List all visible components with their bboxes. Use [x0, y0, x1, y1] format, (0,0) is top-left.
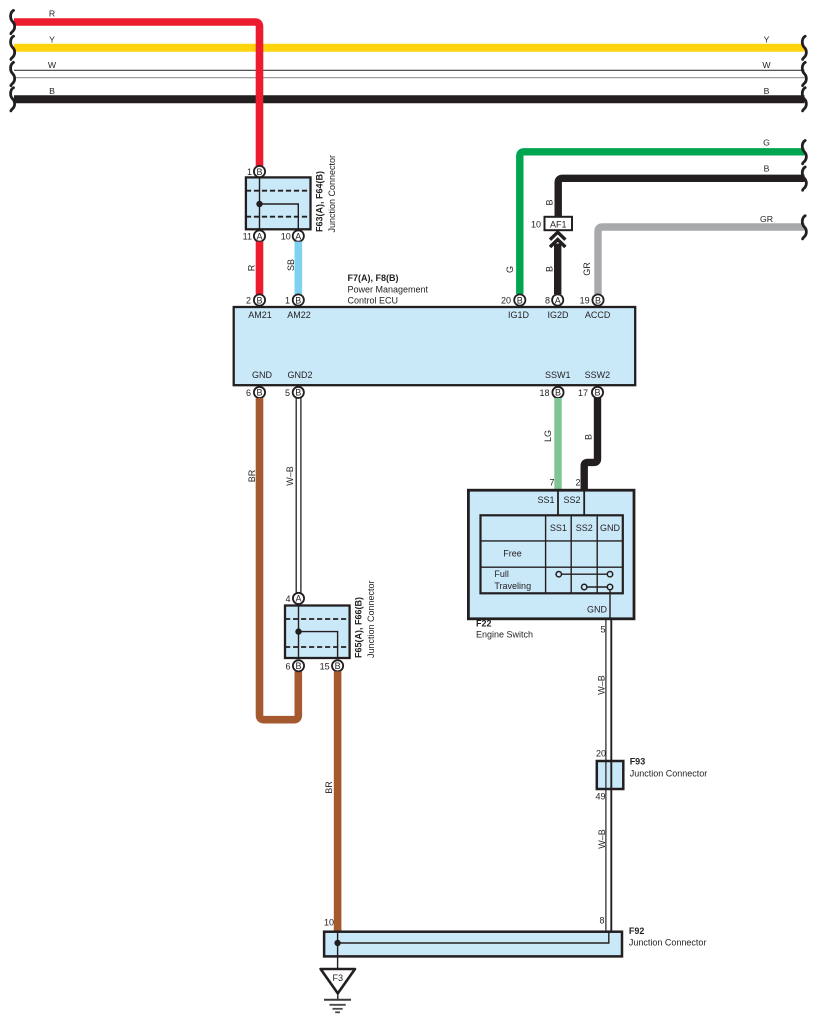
pin 18 B (SSW1)	[552, 387, 563, 398]
svg-text:20: 20	[596, 749, 606, 759]
svg-text:F65(A), F66(B): F65(A), F66(B)	[354, 597, 364, 658]
svg-text:W: W	[48, 60, 57, 70]
svg-text:W–B: W–B	[285, 466, 295, 486]
break symbol GR	[802, 216, 806, 239]
svg-text:AF1: AF1	[550, 219, 567, 229]
pin 4 A	[293, 593, 304, 604]
junction connector F93 box	[597, 761, 624, 789]
wire SB F63 to ECU AM22	[294, 242, 302, 295]
pin 17 B (SSW2)	[592, 387, 603, 398]
break symbol B	[802, 167, 806, 190]
svg-text:Control ECU: Control ECU	[348, 295, 399, 305]
break symbol right edge (buses)	[802, 36, 806, 59]
svg-text:W–B: W–B	[597, 829, 607, 849]
internal wire vertical pin1-pin11	[259, 177, 261, 229]
wire BR F65 pin 15 to F92	[334, 671, 342, 931]
break symbol left edge	[11, 10, 15, 33]
earth hatch lines	[324, 999, 351, 1001]
pin 20 B (IG1D)	[514, 294, 525, 305]
svg-text:IG2D: IG2D	[547, 310, 569, 320]
switch table frame	[481, 515, 623, 593]
svg-text:B: B	[256, 167, 262, 177]
dashed line upper	[285, 618, 350, 620]
svg-text:Power Management: Power Management	[348, 284, 429, 294]
svg-text:B: B	[49, 86, 55, 96]
svg-text:Traveling: Traveling	[494, 581, 531, 591]
svg-text:B: B	[764, 86, 770, 96]
junction dot	[334, 940, 340, 946]
bus wire B	[14, 95, 805, 103]
svg-text:B: B	[594, 388, 600, 398]
svg-text:GND: GND	[252, 370, 273, 380]
svg-text:A: A	[555, 295, 561, 305]
pin 10 A	[293, 230, 304, 241]
svg-text:10: 10	[324, 918, 334, 928]
svg-text:8: 8	[599, 916, 604, 926]
wire B from AF1 to ECU pin 8	[554, 244, 561, 295]
svg-text:B: B	[256, 295, 262, 305]
svg-text:B: B	[584, 434, 594, 440]
pin 6 B (GND)	[254, 387, 265, 398]
internal wire vertical pin4-pin6	[298, 606, 300, 659]
svg-text:GR: GR	[760, 214, 773, 224]
ground lead from F92	[337, 943, 339, 969]
svg-text:20: 20	[501, 296, 511, 306]
svg-text:Engine Switch: Engine Switch	[476, 630, 533, 640]
svg-text:B: B	[295, 661, 301, 671]
svg-text:49: 49	[595, 792, 605, 802]
svg-text:Junction Connector: Junction Connector	[366, 580, 376, 658]
pin 2 B (AM21)	[254, 294, 265, 305]
svg-text:AM22: AM22	[287, 310, 311, 320]
svg-text:17: 17	[578, 388, 588, 398]
svg-text:SS2: SS2	[576, 523, 593, 533]
svg-text:B: B	[256, 388, 262, 398]
svg-text:GR: GR	[582, 262, 592, 276]
internal lead SS1	[557, 490, 559, 515]
pin 19 B (ACCD)	[592, 294, 603, 305]
contact SS1-GND	[559, 573, 610, 575]
bus wire W (outlined white wire)	[14, 69, 805, 71]
svg-text:F92: F92	[629, 926, 645, 936]
svg-text:18: 18	[539, 388, 549, 398]
engine switch F22 box	[468, 490, 634, 619]
junction connector F92 box	[324, 932, 622, 957]
bus wire Y	[14, 44, 805, 52]
svg-text:Junction Connector: Junction Connector	[629, 938, 707, 948]
table row lines	[481, 541, 623, 567]
pin 6 B	[293, 660, 304, 671]
svg-text:ACCD: ACCD	[585, 310, 611, 320]
contact SS2-GND	[584, 586, 610, 588]
svg-text:SS2: SS2	[563, 495, 580, 505]
svg-text:SSW2: SSW2	[585, 370, 611, 380]
svg-text:GND: GND	[587, 605, 608, 615]
svg-text:4: 4	[285, 594, 290, 604]
svg-text:LG: LG	[543, 430, 553, 442]
svg-text:Free: Free	[503, 549, 522, 559]
dashed line lower	[285, 646, 350, 648]
svg-text:1: 1	[247, 167, 252, 177]
wire B SSW2 to engine switch pin 2	[584, 398, 597, 491]
pin 15 B	[332, 660, 343, 671]
svg-text:GND2: GND2	[287, 370, 312, 380]
svg-text:6: 6	[246, 388, 251, 398]
svg-text:Junction Connector: Junction Connector	[327, 155, 337, 233]
pin 8 A (IG2D)	[552, 294, 563, 305]
svg-text:GND: GND	[600, 523, 621, 533]
wire GR horizontal from right	[598, 227, 805, 294]
dashed line upper	[246, 190, 311, 192]
svg-text:SS1: SS1	[550, 523, 567, 533]
internal wire from BR to W-B	[338, 932, 609, 943]
pin 5 B (GND2)	[293, 387, 304, 398]
wire W-B GND2 to F65 pin 4	[296, 398, 301, 593]
junction connector F63(A),F64(B) box	[246, 177, 311, 229]
svg-text:B: B	[595, 295, 601, 305]
break symbol G	[802, 141, 806, 164]
svg-text:G: G	[505, 266, 515, 273]
svg-text:IG1D: IG1D	[508, 310, 530, 320]
svg-text:5: 5	[285, 388, 290, 398]
svg-text:7: 7	[549, 478, 554, 488]
ground stem	[337, 993, 339, 999]
wire LG SSW1 to engine switch pin 7	[554, 398, 561, 490]
dashed line lower	[246, 216, 311, 218]
svg-text:2: 2	[575, 478, 580, 488]
wire BR ECU GND to F65 pin 6 (U shape)	[260, 398, 299, 720]
svg-text:BR: BR	[247, 469, 257, 482]
svg-text:Y: Y	[764, 34, 770, 44]
svg-text:19: 19	[580, 296, 590, 306]
svg-text:Full: Full	[494, 569, 509, 579]
internal lead SS2	[583, 490, 585, 515]
svg-text:B: B	[295, 388, 301, 398]
svg-text:SB: SB	[286, 259, 296, 271]
svg-text:G: G	[763, 137, 770, 147]
svg-text:B: B	[335, 661, 341, 671]
svg-text:F7(A), F8(B): F7(A), F8(B)	[348, 273, 399, 283]
internal branch to pin15	[299, 632, 338, 658]
svg-text:15: 15	[320, 661, 330, 671]
svg-text:SS1: SS1	[537, 495, 554, 505]
junction connector F65(A),F66(B) box	[285, 606, 350, 659]
svg-text:BR: BR	[324, 781, 334, 794]
ECU F7(A),F8(B) box	[234, 307, 636, 385]
table column lines	[546, 515, 598, 593]
wire W-B engine switch to F93 and F92	[605, 619, 607, 932]
wire B horizontal from right to AF1	[558, 178, 804, 217]
svg-text:B: B	[555, 388, 561, 398]
svg-text:6: 6	[285, 661, 290, 671]
svg-text:8: 8	[545, 296, 550, 306]
ground F3 triangle	[321, 969, 355, 993]
junction dot	[256, 201, 262, 207]
svg-text:Y: Y	[49, 34, 55, 44]
svg-text:SSW1: SSW1	[545, 370, 571, 380]
svg-text:W–B: W–B	[597, 675, 607, 695]
svg-text:A: A	[295, 231, 301, 241]
wire G horizontal from right	[520, 152, 805, 294]
svg-text:1: 1	[285, 296, 290, 306]
connector arrow chevrons below AF1	[550, 232, 565, 240]
svg-text:Junction Connector: Junction Connector	[630, 768, 708, 778]
pin 1 B (AM22)	[293, 294, 304, 305]
svg-text:F63(A), F64(B): F63(A), F64(B)	[315, 171, 325, 232]
svg-text:B: B	[295, 295, 301, 305]
svg-text:B: B	[545, 266, 555, 272]
internal GND lead	[609, 590, 611, 619]
svg-text:W: W	[762, 60, 771, 70]
svg-text:10: 10	[531, 219, 541, 229]
svg-text:R: R	[49, 9, 55, 19]
svg-text:B: B	[517, 295, 523, 305]
svg-text:AM21: AM21	[248, 310, 272, 320]
junction dot	[295, 628, 301, 634]
wire W-B through F93	[605, 761, 607, 789]
pin 11 A	[254, 230, 265, 241]
internal branch to pin10	[260, 204, 299, 229]
svg-text:B: B	[764, 164, 770, 174]
svg-text:5: 5	[600, 624, 605, 634]
svg-text:R: R	[247, 264, 257, 271]
svg-text:B: B	[545, 199, 555, 205]
svg-text:F3: F3	[333, 973, 344, 983]
svg-text:11: 11	[243, 232, 252, 242]
bus wire R with corner down to F63 pin 1	[14, 22, 260, 166]
connector AF1 box	[545, 217, 573, 230]
svg-text:10: 10	[281, 232, 291, 242]
svg-text:A: A	[256, 231, 262, 241]
svg-text:F22: F22	[476, 619, 492, 629]
svg-text:F93: F93	[630, 757, 646, 767]
svg-text:2: 2	[246, 296, 251, 306]
pin 1 B	[254, 166, 265, 177]
svg-text:A: A	[295, 594, 301, 604]
wire R F63 to ECU AM21	[256, 242, 264, 295]
